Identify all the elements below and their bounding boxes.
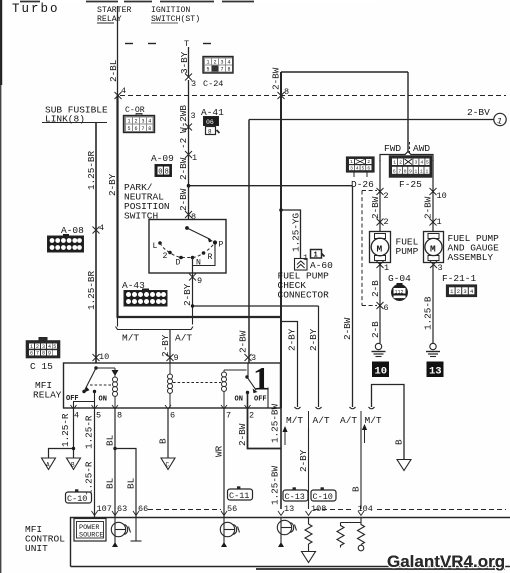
svg-text:C-10: C-10 [67,494,87,504]
connector oval C-10 right [311,487,336,502]
svg-text:BL: BL [126,478,137,489]
MFI control unit box [71,518,510,567]
svg-text:IGNITION: IGNITION [151,6,190,15]
svg-text:5: 5 [53,344,56,350]
svg-text:2-B: 2-B [370,280,381,297]
ground triangle C [161,458,175,470]
svg-text:2: 2 [36,344,39,350]
page link circled 1 [494,113,506,127]
ground bolt FWD pump [372,343,386,356]
svg-text:3: 3 [438,263,443,273]
svg-text:2: 2 [384,191,389,201]
svg-text:D: D [176,259,181,268]
svg-text:9: 9 [48,351,51,357]
svg-text:Turbo: Turbo [12,2,60,16]
transistor driver 63 [111,518,130,548]
variant cups A/T M/T right [350,407,375,409]
switch P contact wire [193,244,216,266]
wire 2-BW to park/neutral switch [188,186,190,219]
label 2-BW main feed [271,67,282,90]
svg-text:6: 6 [30,351,33,357]
svg-text:M/T: M/T [365,415,382,426]
junction splice 1 [185,151,192,158]
junction splice 1 below pump [377,261,384,268]
svg-text:63: 63 [117,504,127,514]
svg-text:2: 2 [213,60,216,66]
svg-text:2-BY: 2-BY [107,173,118,196]
svg-text:1.25-BW: 1.25-BW [270,404,281,443]
FWD option dashed box [362,191,377,306]
junction splice A-08 pin 4 [93,227,100,234]
connector C-24 [203,57,233,74]
label 2-BW AWD leg [423,196,434,219]
svg-text:M/T: M/T [286,415,303,426]
label F-25 [399,179,422,190]
svg-text:F-21-1: F-21-1 [442,273,477,284]
svg-text:3: 3 [220,60,223,66]
label A-41 [201,107,224,118]
switch common contact [185,226,213,242]
svg-text:6: 6 [134,126,137,132]
svg-text:3: 3 [191,111,196,121]
relay pin entry marks bottom [71,405,251,409]
svg-text:3: 3 [191,79,196,89]
junction splice pin3 C-24 [185,74,192,81]
svg-text:1: 1 [437,217,442,227]
wire relay pin4 to grounds [49,408,76,458]
svg-text:A/T: A/T [313,415,330,426]
svg-text:8: 8 [165,169,169,177]
switch N output wire [192,258,194,278]
node 1 [192,153,197,163]
svg-text:2-BW: 2-BW [178,157,189,180]
svg-text:-2: -2 [178,138,189,149]
svg-text:4: 4 [421,160,424,166]
svg-text:5: 5 [206,67,209,73]
wire 2-BL from starter relay [108,6,119,96]
wire 2-B pump ground [370,263,381,344]
selector position dots L 2 D N R P [158,240,217,259]
svg-text:1.25-BR: 1.25-BR [86,271,97,310]
ground bolt AWD pump [426,343,440,356]
svg-text:A-43: A-43 [122,280,145,291]
svg-text:RELAY: RELAY [33,390,62,401]
svg-text:2-BY: 2-BY [308,328,319,351]
label M/T mid [286,415,303,426]
svg-text:CONNECTOR: CONNECTOR [278,290,330,301]
svg-text:2: 2 [384,217,389,227]
svg-text:8: 8 [404,169,407,175]
connector A-41 [204,117,220,136]
connector A-43 [124,289,167,307]
svg-text:1: 1 [384,263,389,273]
svg-text:2: 2 [367,159,370,165]
svg-text:2: 2 [249,411,254,421]
capacitor stub 66 [131,518,142,542]
svg-text:2-BW: 2-BW [178,188,189,211]
svg-text:ASSEMBLY: ASSEMBLY [448,252,494,263]
svg-text:2-BW: 2-BW [238,330,249,353]
junction splice 9 below switch [189,274,196,281]
svg-text:1.25-B: 1.25-B [423,296,434,330]
svg-text:8: 8 [42,351,45,357]
check connector chevron symbol A-60 [295,259,308,271]
svg-text:9: 9 [409,169,412,175]
variant bracket M/T A/T above relay [116,306,194,330]
node 2 pump [384,217,389,227]
wire BW2-W below C-24 [178,80,189,186]
svg-text:C-13: C-13 [285,492,305,502]
wire 2-BY from switch [182,277,193,306]
wire 2-BY to MFI 108 [298,428,309,509]
node 10 at relay [99,352,109,362]
svg-text:C: C [166,462,170,469]
svg-text:2-BW: 2-BW [370,196,381,219]
label MFI CONTROL UNIT [25,524,65,554]
svg-text:STARTER: STARTER [97,6,131,15]
svg-text:2-BW: 2-BW [423,196,434,219]
node 3 A-41 [191,111,196,121]
node 1 A-60 [303,253,308,263]
connector oval C-11 [228,486,253,501]
label A-08 [61,225,84,236]
junction splice 6 [377,302,384,309]
wire horizontal to right fuel pump column [187,184,353,188]
variant cups M/T A/T mid [295,407,322,409]
wire down to FWD/AWD bracket [407,72,409,153]
svg-text:3-BY: 3-BY [179,51,190,74]
label STARTER RELAY [97,6,131,24]
label A-43 [122,280,145,291]
svg-text:104: 104 [358,504,373,514]
label FUEL PUMP CHECK CONNECTOR [278,271,330,301]
svg-text:2-BY: 2-BY [298,449,309,472]
variant separator right [360,411,362,428]
svg-text:G-04: G-04 [388,273,411,284]
svg-text:7: 7 [36,351,39,357]
svg-text:5: 5 [362,165,365,171]
ground G-04 symbol [392,283,408,301]
dashed page split line [120,95,506,97]
svg-text:SWITCH(ST): SWITCH(ST) [151,14,200,24]
svg-text:1.25-R: 1.25-R [60,413,71,447]
svg-text:2-BY: 2-BY [160,334,171,357]
wire 2-BY main left [107,96,118,318]
svg-text:ON: ON [99,396,107,404]
svg-text:F-25: F-25 [399,179,422,190]
relay pin numbers [74,411,254,421]
svg-text:66: 66 [138,504,148,514]
svg-text:8: 8 [208,129,212,136]
wire 2-BW horizontal page link [249,107,494,120]
label OFF right [254,396,267,404]
flow arrow up left [282,426,287,445]
label SUB FUSIBLE LINK(8) [42,105,108,125]
label A/T left bracket [175,333,192,344]
svg-text:4: 4 [227,60,230,66]
wire M/T 2-BY down [281,322,298,408]
svg-text:5: 5 [96,411,101,421]
svg-text:B: B [394,439,405,445]
svg-text:1: 1 [350,159,353,165]
big 1 marker [253,362,270,398]
svg-text:6: 6 [384,303,389,313]
svg-text:8: 8 [148,126,151,132]
svg-text:2-BW: 2-BW [237,423,248,446]
ground triangle B right [397,460,411,471]
connector oval C-10 left [66,489,92,504]
node 1 AWD pump [437,217,442,227]
svg-text:PUMP: PUMP [396,246,419,257]
MFI relay box [64,363,281,408]
svg-text:UNIT: UNIT [25,543,48,554]
break dashes top [125,43,211,45]
svg-text:1: 1 [192,153,197,163]
svg-text:C-24: C-24 [203,79,223,89]
svg-text:1.25-BW: 1.25-BW [270,466,281,505]
cut-off title text at very top [18,0,378,4]
label ON right [235,396,243,404]
svg-text:B: B [158,438,169,444]
svg-text:8: 8 [227,67,230,73]
wire relay pin2 2-BW [237,408,281,449]
svg-text:4: 4 [99,223,104,233]
connector oval C-13 [283,487,308,502]
label A-09 [151,153,174,164]
connector F-25 [390,156,432,177]
svg-text:2-BY: 2-BY [287,328,298,351]
relay diode [96,368,119,376]
svg-text:56: 56 [227,504,237,514]
wire 2-BW ignition feed [178,157,189,211]
svg-text:10: 10 [437,191,447,201]
svg-text:7: 7 [220,67,223,73]
label A/T right pair [340,415,357,426]
junction splice 3 below AWD pump [430,261,437,268]
wire top horizontal to AWD column [281,71,408,73]
watermark GalantVR4.org [256,552,505,571]
svg-text:2-BW: 2-BW [342,317,353,340]
svg-text:C 15: C 15 [30,361,53,372]
svg-text:A-60: A-60 [310,260,333,271]
svg-text:7: 7 [141,126,144,132]
label M/T left bracket [122,333,139,344]
junction splice on dashed line [115,92,122,99]
border left edge [0,0,2,573]
svg-text:3: 3 [463,289,466,295]
junction splice 10 F-25 [430,188,437,195]
svg-text:1: 1 [30,344,33,350]
MFI entry arrows [92,511,365,516]
ground triangle A [42,458,56,470]
label B ground wire [394,439,405,445]
label FUEL PUMP AND GAUGE ASSEMBLY [448,233,500,263]
wire switch output horizontal y306 [191,304,319,307]
node 10 F-25 [437,191,447,201]
svg-text:6: 6 [367,165,370,171]
svg-text:9: 9 [174,353,179,363]
svg-text:8: 8 [117,411,122,421]
relay coil 3 [222,370,247,408]
svg-text:2: 2 [163,252,168,261]
svg-text:1: 1 [253,362,270,398]
svg-text:R: R [208,253,213,262]
transistor driver 13 [277,518,296,548]
connector C-OR [124,114,155,133]
svg-text:8: 8 [284,87,289,97]
node 4 A-08 [99,223,104,233]
svg-text:L: L [153,242,158,251]
node 3 at relay [251,353,256,363]
svg-text:1: 1 [393,160,396,166]
svg-text:OFF: OFF [66,395,79,403]
svg-text:1: 1 [426,169,429,175]
svg-text:A: A [46,462,50,469]
svg-text:B: B [71,462,75,469]
svg-text:13: 13 [429,366,442,378]
svg-text:C-11: C-11 [229,491,249,501]
svg-text:4: 4 [121,86,126,96]
junction splice 10 at relay [93,354,100,361]
label ON left [99,396,107,404]
relay coil 2 (P/N energize) [168,363,173,408]
label OFF left [66,395,79,403]
ground code box 10 [372,362,389,378]
junction splice 8 at switch [185,211,192,218]
label G-04 [388,273,411,284]
label 2-BW above relay pin 3 [238,330,249,353]
junction splice 3 at relay [245,354,252,361]
svg-text:0: 0 [158,169,162,177]
wire relay pin6 B to ground C [158,408,169,458]
svg-text:2-BL: 2-BL [108,60,119,82]
selector labels [153,241,224,268]
svg-text:1.25-R: 1.25-R [84,461,95,495]
label C 15 [30,361,53,372]
svg-text:BL: BL [105,435,116,446]
svg-text:2: 2 [399,160,402,166]
svg-text:06: 06 [206,119,214,126]
connector icon A-60 [311,250,325,260]
svg-text:2-BV: 2-BV [467,107,490,118]
node 4 at C-OR [121,86,126,96]
svg-text:B: B [351,486,362,492]
wire B to MFI 104 [351,428,362,509]
mechanical link dashes middle [173,382,221,384]
svg-text:4: 4 [74,411,79,421]
svg-text:1: 1 [127,119,130,125]
svg-text:5: 5 [127,126,130,132]
park/neutral position switch box [149,220,226,274]
junction splice 8 on page line [278,92,285,99]
label M/T right pair [365,415,382,426]
dashed page line bottom [148,509,506,511]
svg-text:1.25-YG: 1.25-YG [291,213,302,252]
wire FWD leg down [379,160,381,231]
label MFI RELAY [33,380,62,401]
FWD/AWD split bracket [380,152,433,162]
label FUEL PUMP [396,237,419,258]
svg-text:2-BW: 2-BW [271,67,282,90]
svg-text:1: 1 [420,169,423,175]
node 3 below AWD pump [438,263,443,273]
ground code box 13 [427,362,444,378]
connector A-08 [48,234,84,252]
wire from page link down to relay pin 3 [248,120,250,364]
svg-text:13: 13 [284,504,294,514]
junction splice 2 D-26 [377,188,384,195]
svg-text:FWD: FWD [384,143,401,154]
mechanical link dashes left [90,384,112,386]
svg-text:3: 3 [350,165,353,171]
node 8 switch [191,212,196,222]
svg-text:6: 6 [393,169,396,175]
svg-text:4: 4 [356,165,359,171]
wire relay pin5 1.25-R to MFI [84,408,95,517]
wire 1.25-BW to MFI 13 [270,404,282,509]
connector F-21-1 [447,285,477,297]
svg-text:A/T: A/T [340,415,357,426]
wire 1.25-BR sub fusible link [86,123,97,364]
resistor 108 [305,518,312,552]
transistor driver 56 [220,518,239,548]
svg-text:10: 10 [375,366,388,378]
node 9 [197,276,202,286]
ground triangle B [67,458,81,470]
svg-text:M: M [377,244,383,255]
svg-text:GalantVR4.org: GalantVR4.org [387,552,505,571]
node 6 [384,303,389,313]
svg-text:9: 9 [197,276,202,286]
svg-text:2: 2 [134,119,137,125]
svg-text:10: 10 [99,352,109,362]
wire 3-BY ignition [179,47,190,77]
svg-text:WR: WR [214,445,225,457]
junction splice A-41 [185,124,192,131]
svg-text:1: 1 [206,60,209,66]
svg-text:7: 7 [226,411,231,421]
label F-21-1 [442,273,477,284]
variant separator mid-left [308,411,310,428]
svg-text:2-B: 2-B [370,321,381,338]
selector arc dashed [160,243,215,258]
svg-text:AWD: AWD [413,143,430,154]
node 3 C-24 [191,79,223,89]
wire 1.25-B AWD pump ground [423,263,434,344]
svg-text:5: 5 [426,160,429,166]
wire relay pin8 BL to MFI [105,408,117,517]
MFI pin numbers [97,504,373,514]
svg-text:BL: BL [105,478,116,489]
main feed wire 2-BW vertical [280,72,282,408]
svg-text:112: 112 [395,290,404,296]
wire 2-BW right variant down [342,186,353,407]
svg-text:M/T: M/T [122,333,139,344]
svg-text:3: 3 [415,160,418,166]
label FWD AWD [384,142,430,154]
svg-text:4: 4 [48,344,51,350]
label Turbo [12,2,60,16]
svg-text:1: 1 [314,252,318,260]
branch to fuel pump check connector [279,208,301,258]
node 9 at relay [174,353,179,363]
fuel pump FWD [370,232,391,263]
svg-text:3: 3 [141,119,144,125]
svg-text:A-09: A-09 [151,153,174,164]
junction splice 9 at relay [167,354,174,361]
svg-text:N: N [196,259,201,268]
connector A-09 [155,165,172,177]
